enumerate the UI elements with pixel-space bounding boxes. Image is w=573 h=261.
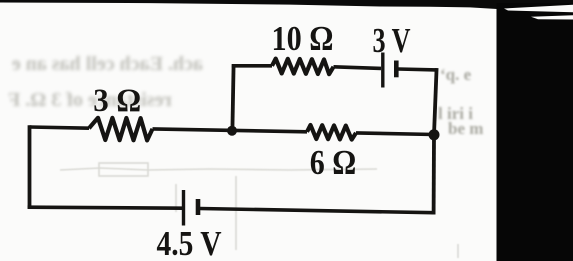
svg-text:ach. Each cell has an e: ach. Each cell has an e (12, 53, 203, 75)
wire: top rail between resistor and battery (334, 67, 382, 69)
battery 4.5V short plate (196, 199, 201, 215)
svg-text:3 Ω: 3 Ω (93, 83, 141, 119)
battery 3V short plate (394, 61, 399, 78)
battery 4.5V long plate (182, 190, 185, 226)
svg-text:6 Ω: 6 Ω (310, 143, 357, 182)
svg-text:10 Ω: 10 Ω (272, 19, 334, 58)
wire: middle rail between resistors (153, 129, 308, 132)
bleed-through mirrored text line 1 (12, 53, 203, 75)
wire: top rail left of 10-ohm resistor (232, 64, 272, 68)
wire: left vertical (28, 125, 32, 209)
bleed-through mirrored text line 2 (8, 89, 172, 111)
node A junction dot (227, 126, 237, 136)
resistor 10 ohm (272, 59, 334, 75)
svg-text:be m: be m (448, 119, 483, 138)
faint bleed box middle (60, 163, 458, 258)
node B junction dot (429, 129, 440, 140)
wire: bottom rail left of 4.5V battery (28, 207, 182, 208)
svg-text:‘q. e: ‘q. e (440, 65, 472, 84)
wire: right vertical upper (434, 68, 437, 135)
svg-text:resistance of 3 Ω. F: resistance of 3 Ω. F (8, 89, 172, 111)
resistor 6 ohm (307, 125, 356, 140)
svg-text:3 V: 3 V (373, 21, 411, 60)
svg-text:4.5 V: 4.5 V (157, 224, 222, 261)
wire: vertical from node A up to top branch (232, 64, 233, 131)
wire: middle rail left of 3-ohm resistor (30, 127, 90, 128)
wire: middle rail right of 6-ohm resistor (356, 133, 434, 135)
resistor 3 ohm (89, 118, 153, 141)
battery 3V long plate (381, 53, 384, 88)
wire: bottom rail right of 4.5V battery (200, 209, 434, 213)
wire: right vertical lower (432, 135, 436, 215)
wire: top rail right of 3V battery (398, 67, 437, 72)
